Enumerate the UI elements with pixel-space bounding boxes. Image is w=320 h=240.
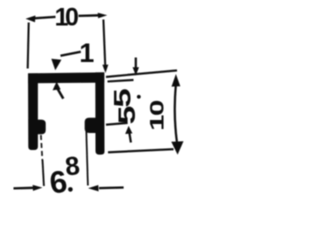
dim 6.8: left extension line solid part: [43, 160, 44, 186]
dim 10 top: right extension line: [103, 20, 105, 66]
dim 10 top: right line: [79, 14, 100, 17]
dim 5.5: lower extension line: [106, 123, 128, 125]
dim 10 top: left extension line: [28, 23, 29, 69]
dim 6.8: decimal dot: [68, 187, 73, 192]
dim 6.8: left line: [14, 187, 35, 190]
profile left wall: [28, 73, 38, 150]
dim 5.5: upper arrowhead down: [133, 67, 139, 75]
svg-text:8: 8: [64, 150, 82, 181]
dim 6.8: right arrowhead left: [88, 185, 99, 191]
dim 10 right: up arrowhead: [172, 74, 181, 87]
dim 1: up arrow tail: [57, 89, 63, 99]
dim 5.5: lower arrowhead up: [125, 126, 132, 134]
dim 6.8: left extension line dashed: [41, 135, 43, 161]
profile right wall: [95, 72, 104, 154]
svg-text:1: 1: [79, 38, 94, 68]
svg-text:10: 10: [147, 101, 168, 131]
dim 1: up arrowhead under wall: [53, 82, 61, 91]
dim 6.8: left arrowhead right: [33, 185, 43, 191]
dim 10 top: left line: [33, 17, 56, 19]
dim 5.5: decimal dot: [137, 95, 141, 99]
svg-text:10: 10: [55, 4, 78, 32]
dim 5.5: lower arrow tail: [129, 133, 131, 143]
dim 5.5: top extension line short: [108, 80, 134, 82]
profile top wall: [28, 72, 104, 83]
dim 5.5: top extension line long: [106, 70, 177, 77]
profile left foot lip: [38, 120, 46, 135]
dim 10 top: right extension arrowhead: [102, 65, 108, 73]
dim 10 top: left arrow: [26, 16, 36, 23]
dim 1: leader line: [61, 52, 81, 56]
dim 10 right: bottom extension line: [108, 149, 174, 152]
dim 6.8: right line: [99, 186, 124, 189]
dim 5.5: upper arrow line: [135, 58, 137, 69]
dim 1: leader blob dot: [53, 60, 58, 65]
dim 10 right: down arrowhead: [171, 141, 183, 154]
svg-text:5: 5: [114, 106, 140, 125]
dim 10 right: vertical line: [175, 84, 177, 142]
profile right foot lip: [85, 118, 96, 133]
svg-text:5: 5: [109, 88, 135, 107]
dim 10 top: right arrow: [98, 13, 107, 19]
dim 1: leader arrowhead blob: [51, 59, 61, 70]
dim 6.8: right extension line: [86, 131, 88, 186]
